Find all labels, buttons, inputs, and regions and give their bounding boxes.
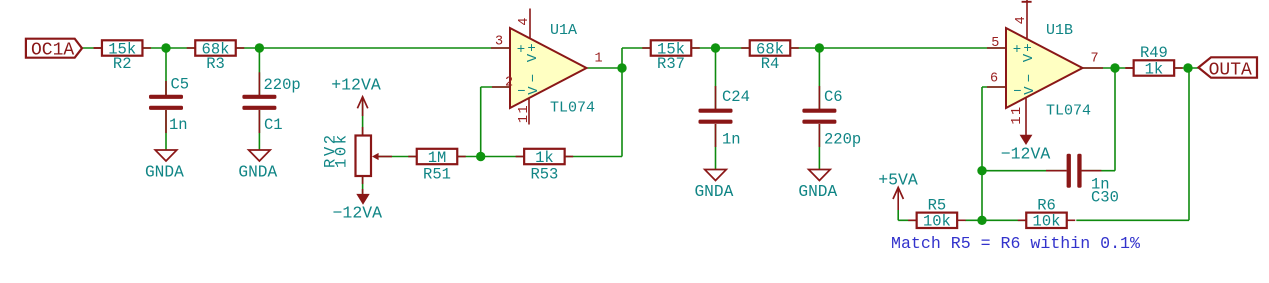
- svg-text:GNDA: GNDA: [238, 164, 277, 182]
- svg-text:GNDA: GNDA: [145, 164, 184, 182]
- svg-text:4: 4: [1014, 16, 1029, 24]
- svg-text:C5: C5: [171, 76, 190, 94]
- svg-text:1k: 1k: [1145, 60, 1164, 78]
- svg-text:TL074: TL074: [1046, 103, 1091, 120]
- svg-text:6: 6: [990, 72, 998, 87]
- svg-text:220p: 220p: [824, 131, 861, 149]
- svg-text:C30: C30: [1091, 188, 1119, 206]
- svg-text:C24: C24: [722, 88, 750, 106]
- svg-text:V+: V+: [525, 41, 541, 62]
- svg-text:+5VA: +5VA: [878, 171, 918, 190]
- svg-text:OC1A: OC1A: [31, 40, 74, 60]
- svg-text:R3: R3: [206, 55, 225, 73]
- svg-text:−: −: [517, 84, 525, 100]
- svg-text:2: 2: [505, 76, 513, 91]
- svg-text:R2: R2: [113, 55, 132, 73]
- svg-text:1k: 1k: [535, 149, 554, 167]
- svg-text:R37: R37: [657, 55, 685, 73]
- svg-text:GNDA: GNDA: [798, 183, 837, 201]
- svg-text:C1: C1: [264, 116, 283, 134]
- svg-text:+: +: [1013, 42, 1021, 58]
- svg-text:U1A: U1A: [550, 22, 577, 39]
- svg-text:R5: R5: [928, 196, 947, 214]
- svg-text:−12VA: −12VA: [333, 204, 383, 223]
- svg-text:4: 4: [517, 17, 532, 25]
- svg-text:Match R5 = R6 within 0.1%: Match R5 = R6 within 0.1%: [891, 234, 1140, 253]
- svg-text:GNDA: GNDA: [694, 183, 733, 201]
- svg-text:R49: R49: [1140, 44, 1168, 62]
- svg-text:TL074: TL074: [550, 100, 595, 117]
- svg-text:+12VA: +12VA: [331, 75, 381, 94]
- svg-text:U1B: U1B: [1046, 22, 1073, 39]
- svg-text:R4: R4: [761, 55, 780, 73]
- svg-text:5: 5: [991, 36, 999, 51]
- svg-text:−12VA: −12VA: [1001, 144, 1051, 163]
- svg-text:C6: C6: [824, 88, 843, 106]
- svg-text:−: −: [1013, 84, 1021, 100]
- svg-text:+: +: [517, 42, 525, 58]
- svg-text:1M: 1M: [428, 149, 447, 167]
- svg-text:V+: V+: [1021, 41, 1037, 62]
- svg-text:R6: R6: [1037, 196, 1056, 214]
- svg-text:R53: R53: [530, 165, 558, 183]
- svg-text:V−: V−: [1022, 70, 1038, 95]
- svg-text:R51: R51: [423, 165, 451, 183]
- svg-text:7: 7: [1090, 52, 1098, 67]
- svg-text:OUTA: OUTA: [1209, 60, 1252, 80]
- svg-text:1: 1: [594, 52, 602, 67]
- svg-text:1n: 1n: [169, 116, 188, 134]
- svg-text:11: 11: [517, 104, 532, 123]
- svg-text:1n: 1n: [722, 131, 741, 149]
- svg-text:3: 3: [495, 34, 503, 49]
- svg-text:V−: V−: [526, 70, 542, 95]
- svg-text:11: 11: [1010, 105, 1025, 124]
- svg-text:10k: 10k: [333, 132, 351, 168]
- svg-text:10k: 10k: [1033, 213, 1061, 231]
- svg-text:10k: 10k: [923, 213, 951, 231]
- svg-text:220p: 220p: [264, 76, 301, 94]
